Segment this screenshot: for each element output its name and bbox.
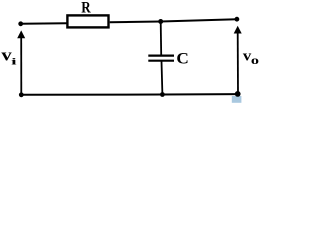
svg-text:R: R: [81, 0, 91, 17]
svg-text:i: i: [11, 56, 17, 67]
svg-text:o: o: [251, 54, 259, 67]
svg-text:C: C: [176, 49, 188, 67]
